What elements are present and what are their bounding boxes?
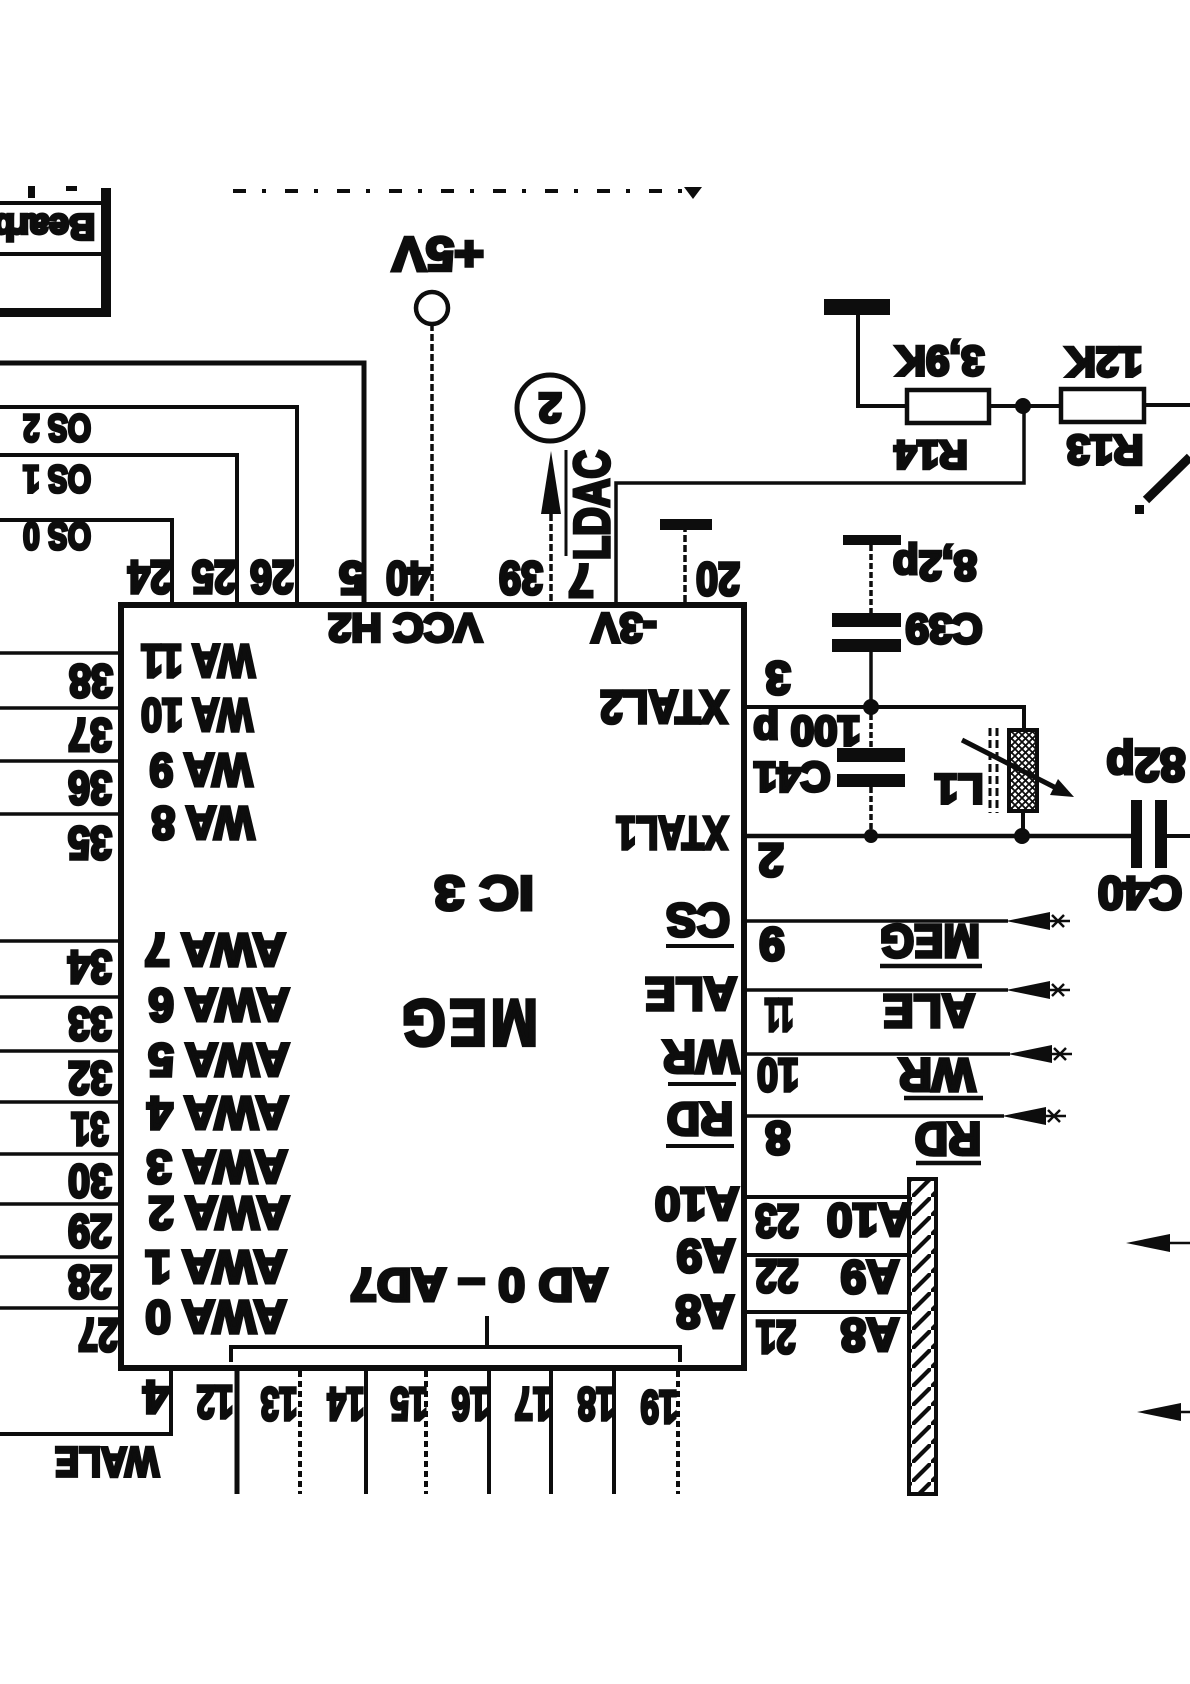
svg-text:40: 40 (386, 552, 430, 604)
sheet reference circled 2 (517, 375, 583, 441)
wire pin 18 (612, 1371, 616, 1494)
wire WR (pin 10) with input arrow (745, 1045, 1072, 1063)
wire A9 (pin 22) to bus (745, 1253, 909, 1257)
svg-text:7: 7 (568, 555, 594, 607)
svg-text:ALE: ALE (883, 985, 975, 1037)
svg-text:27: 27 (78, 1309, 118, 1361)
svg-text:MEG: MEG (880, 915, 980, 967)
svg-text:Bearb: Bearb (0, 207, 95, 248)
svg-text:AD 0 – AD7: AD 0 – AD7 (350, 1259, 608, 1311)
svg-text:3,9K: 3,9K (896, 338, 985, 385)
wire ALE (pin 11) with input arrow (745, 981, 1070, 999)
svg-text:9: 9 (759, 918, 785, 970)
wire pin 19 (676, 1371, 680, 1494)
resistor R14 3,9K (894, 338, 989, 477)
svg-text:A9: A9 (841, 1251, 900, 1303)
wire XTAL2 (pin 3) to L1 (745, 707, 1024, 730)
svg-text:AWA 4: AWA 4 (147, 1087, 289, 1139)
svg-text:OS 0: OS 0 (23, 514, 91, 556)
capacitor C41 100p (753, 708, 905, 831)
off-page arrow lower right (1137, 1403, 1190, 1421)
pin label CS (overbar) (666, 894, 734, 946)
svg-text:31: 31 (71, 1103, 109, 1155)
resistor R13 12K (1061, 339, 1144, 474)
svg-text:4: 4 (143, 1371, 169, 1423)
wire A8 (pin 21) to bus (745, 1310, 909, 1314)
wire OS1 (pin 25) (0, 455, 237, 602)
svg-text:R13: R13 (1066, 427, 1143, 474)
left pin wires 38..27 (0, 653, 121, 1308)
ground above C39 (843, 535, 901, 613)
svg-text:C41: C41 (753, 754, 830, 801)
wire R14 to R13 (989, 404, 1061, 408)
svg-text:WA 9: WA 9 (150, 744, 253, 796)
svg-text:29: 29 (68, 1205, 112, 1257)
pin label RD (overbar) (666, 1093, 734, 1146)
svg-text:13: 13 (261, 1378, 298, 1430)
svg-text:C39: C39 (905, 606, 982, 653)
svg-text:AWA 7: AWA 7 (144, 924, 285, 976)
svg-text:AWA 1: AWA 1 (145, 1241, 286, 1293)
svg-text:38: 38 (69, 655, 113, 707)
pin label WR (overbar) (663, 1031, 740, 1084)
title block (Bearb.) top-left (0, 186, 111, 317)
svg-text:C40: C40 (1098, 867, 1182, 919)
svg-text:30: 30 (68, 1155, 112, 1207)
svg-text:OS 1: OS 1 (23, 457, 91, 499)
net label MEG (overbar) (880, 915, 982, 967)
svg-text:24: 24 (128, 551, 172, 603)
svg-text:LDAC: LDAC (564, 450, 620, 560)
svg-text:CS: CS (666, 894, 730, 946)
svg-text:WA 11: WA 11 (141, 635, 255, 687)
svg-text:AWA 2: AWA 2 (148, 1187, 289, 1239)
svg-text:17: 17 (515, 1378, 552, 1430)
svg-text:A8: A8 (841, 1309, 900, 1361)
svg-text:19: 19 (641, 1381, 678, 1433)
svg-text:21: 21 (756, 1311, 796, 1363)
svg-text:25: 25 (192, 551, 236, 603)
annotation arrow at right edge (1135, 457, 1190, 514)
svg-text:8,2p: 8,2p (893, 543, 977, 590)
svg-text:36: 36 (68, 762, 112, 814)
+5V supply terminal (392, 227, 484, 325)
wire OS0 (pin 24) (0, 520, 172, 602)
svg-text:26: 26 (250, 551, 294, 603)
svg-text:33: 33 (68, 998, 112, 1050)
address bus bar (hatched) (909, 1179, 936, 1494)
bus AD0-AD7 bracket (231, 1316, 680, 1362)
svg-text:14: 14 (327, 1378, 364, 1430)
junction L1/XTAL1 (1014, 828, 1030, 844)
net label RD (overbar) (915, 1113, 981, 1165)
svg-text:3: 3 (765, 652, 791, 704)
svg-text:A10: A10 (655, 1178, 739, 1230)
svg-text:MEG: MEG (398, 986, 538, 1060)
wire RD (pin 8) with input arrow (745, 1107, 1066, 1125)
svg-text:100 p: 100 p (753, 708, 860, 755)
inductor L1 (adjustable) (934, 728, 1074, 836)
svg-text:18: 18 (578, 1378, 615, 1430)
wire R13 to right edge (1144, 403, 1190, 407)
svg-text:34: 34 (68, 941, 112, 993)
wire CS (pin 9) with input arrow (745, 912, 1070, 930)
wire ground to R14 (858, 404, 907, 408)
wire pin 12 (235, 1371, 240, 1494)
svg-text:32: 32 (68, 1052, 112, 1104)
svg-text:WA 10: WA 10 (141, 689, 253, 741)
svg-text:22: 22 (756, 1250, 799, 1302)
wire A10 (pin 23) to bus (745, 1195, 909, 1199)
capacitor C40 82p (1098, 739, 1186, 919)
svg-text:35: 35 (68, 817, 112, 869)
LDAC signal arrow into pin 39 (541, 450, 620, 602)
svg-text:11: 11 (765, 989, 794, 1041)
wire pin 17 (549, 1371, 553, 1494)
svg-text:8: 8 (765, 1112, 791, 1164)
svg-text:RD: RD (667, 1093, 733, 1145)
svg-text:A8: A8 (676, 1286, 735, 1338)
ground at pin 20 (660, 519, 712, 602)
svg-text:RD: RD (915, 1113, 981, 1165)
ground above R14 (824, 299, 890, 408)
svg-text:10: 10 (757, 1049, 799, 1101)
svg-text:2: 2 (758, 834, 784, 886)
wire C40 to right edge (1167, 834, 1190, 838)
wire pin5 to left edge (0, 363, 364, 602)
wire WALE (pin 4) (0, 1371, 171, 1434)
svg-text:WR: WR (663, 1031, 740, 1083)
wire pin 7 to R13/R14 junction (616, 405, 1024, 602)
svg-text:16: 16 (452, 1378, 489, 1430)
svg-text:AWA 0: AWA 0 (145, 1291, 286, 1343)
IC U-IC3 body (121, 605, 744, 1368)
junction R13/R14 (1015, 398, 1031, 414)
svg-text:XTAL1: XTAL1 (616, 807, 728, 859)
svg-text:12K: 12K (1065, 339, 1142, 386)
junction C41/XTAL1 (864, 829, 878, 843)
svg-text:2: 2 (538, 385, 561, 432)
svg-text:IC 3: IC 3 (434, 866, 534, 919)
svg-text:A10: A10 (827, 1194, 911, 1246)
svg-text:+5V: +5V (392, 227, 484, 280)
svg-text:XTAL2: XTAL2 (600, 681, 728, 733)
svg-text:AWA 6: AWA 6 (148, 979, 289, 1031)
off-page arrow upper right (1126, 1234, 1190, 1252)
svg-text:WR: WR (899, 1049, 976, 1101)
svg-text:23: 23 (755, 1195, 799, 1247)
svg-text:VCC H2: VCC H2 (328, 605, 482, 649)
svg-text:AWA 5: AWA 5 (148, 1034, 289, 1086)
wire pin 14 (364, 1371, 368, 1494)
wire pin 13 (298, 1371, 302, 1494)
svg-text:28: 28 (68, 1256, 112, 1308)
svg-text:5: 5 (339, 552, 365, 604)
svg-text:L1: L1 (934, 766, 983, 813)
svg-text:-3V: -3V (591, 605, 656, 652)
svg-text:82p: 82p (1106, 739, 1185, 791)
net label WR (overbar) (899, 1049, 983, 1101)
svg-text:ALE: ALE (645, 968, 737, 1020)
wire XTAL1 (pin 2) to C40 (745, 834, 1132, 839)
svg-text:A9: A9 (677, 1230, 736, 1282)
svg-text:AWA 3: AWA 3 (146, 1141, 287, 1193)
svg-text:37: 37 (68, 709, 112, 761)
svg-text:39: 39 (499, 552, 543, 604)
svg-text:12: 12 (197, 1376, 234, 1428)
sheet frame dash-dot border (top) (233, 187, 702, 199)
svg-text:OS 2: OS 2 (23, 406, 91, 448)
svg-text:R14: R14 (894, 432, 968, 476)
svg-text:WALE: WALE (55, 1439, 159, 1486)
junction XTAL2 node (863, 699, 879, 715)
wire pin 15 (424, 1371, 428, 1494)
wire OS2 (pin 26) (0, 407, 297, 602)
capacitor C39 8,2p (832, 543, 983, 701)
svg-text:WA 8: WA 8 (152, 797, 255, 849)
wire pin 16 (487, 1371, 491, 1494)
wire +5V to pin 40 (430, 324, 434, 602)
svg-text:15: 15 (391, 1378, 428, 1430)
svg-text:20: 20 (696, 553, 740, 605)
